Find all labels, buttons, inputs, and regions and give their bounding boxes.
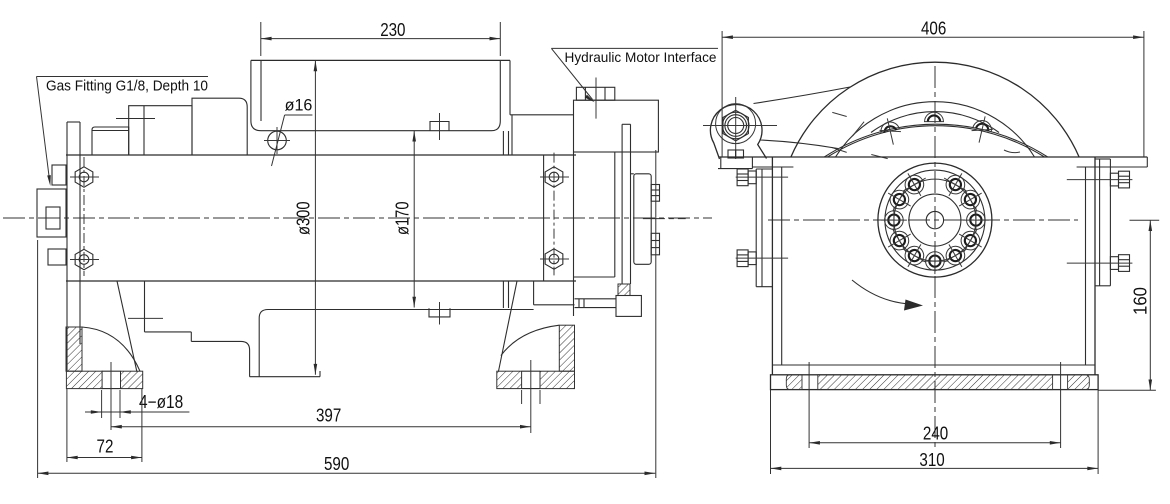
arc bolt top [924, 112, 944, 121]
hub bolt ring circle [894, 179, 976, 261]
left side bolt upper [736, 169, 788, 186]
drum barrel top line [261, 130, 492, 132]
vertical pipe [622, 124, 630, 284]
label ø16 [272, 95, 313, 166]
left bolts centerline [83, 157, 85, 276]
fairlead hex nut [703, 97, 777, 159]
dimension ø300 [294, 60, 318, 374]
svg-text:590: 590 [324, 454, 349, 474]
svg-text:406: 406 [921, 19, 946, 39]
base hatch left blob [786, 375, 802, 390]
right view vertical centerline [934, 66, 936, 447]
svg-text:4−ø18: 4−ø18 [139, 392, 183, 412]
right foot vertical hatch strip [559, 325, 574, 371]
lower pipe elbow assembly [534, 281, 642, 316]
svg-text:ø300: ø300 [294, 202, 314, 236]
right foot hole lines [522, 360, 540, 433]
dimension 310 [771, 390, 1099, 474]
frame top plate [719, 157, 1147, 167]
right flange bolt lower [545, 249, 563, 269]
small cross left bracket [128, 317, 163, 319]
svg-text:160: 160 [1131, 287, 1151, 315]
dimension 4-ø18 [85, 392, 189, 414]
svg-text:72: 72 [97, 437, 114, 457]
stepped block 1 on drum [92, 127, 129, 155]
left flange plates [67, 122, 80, 371]
dimension 397 [111, 406, 531, 429]
right side bolt lower [1067, 255, 1133, 272]
dimension 72 [67, 389, 142, 462]
hub bolts x11 [881, 167, 989, 274]
drum body band outline [66, 155, 576, 281]
arc bolt left [877, 116, 903, 147]
left foot vertical hatch strip [66, 327, 82, 371]
main horizontal centerline [3, 217, 712, 219]
frame left wall [772, 157, 781, 375]
dimension 240 [809, 362, 1061, 448]
right view horizontal centerline [768, 219, 1078, 221]
rope clamp bottom [429, 302, 450, 325]
label gas fitting [37, 77, 209, 187]
dimension 160 [1098, 220, 1159, 390]
flange texture marks [831, 112, 1020, 158]
fairlead lower nuts [728, 150, 744, 158]
dimension 230 [261, 20, 501, 56]
svg-text:Hydraulic Motor Interface: Hydraulic Motor Interface [565, 49, 717, 65]
gas fitting body block [37, 189, 66, 237]
valve block [631, 174, 686, 264]
right doubler plate [1095, 159, 1110, 286]
left foot base plate [66, 371, 142, 388]
svg-text:ø170: ø170 [393, 202, 413, 236]
valve bolt lower [651, 233, 659, 255]
right foot base plate [497, 371, 575, 388]
svg-text:Gas Fitting G1/8, Depth 10: Gas Fitting G1/8, Depth 10 [46, 78, 208, 95]
dimension 406 [722, 19, 1144, 158]
left foot hole lines [102, 362, 120, 430]
hub bore [926, 211, 943, 228]
stepped block 3 on drum [192, 98, 247, 155]
rotation arrow [852, 280, 923, 311]
left side bolt lower [736, 250, 788, 267]
frame bottom inner [772, 364, 1095, 366]
center support bracket [145, 281, 321, 377]
right side bolt upper [1067, 171, 1133, 188]
motor body [574, 152, 615, 316]
left doubler plate [756, 169, 772, 287]
hub middle circle [909, 194, 961, 246]
dimension 590 [38, 150, 656, 478]
base hatch right blob [1068, 375, 1090, 390]
right foot curve [501, 325, 559, 355]
left foot slant flange [117, 281, 137, 372]
left flange bolt upper [75, 167, 93, 187]
ø16 hole [264, 127, 290, 154]
hub outer circle [878, 163, 992, 277]
flange double arc [824, 124, 1047, 157]
right foot slant flange [499, 281, 518, 371]
svg-text:397: 397 [316, 406, 341, 426]
drum barrel bottom line [259, 310, 533, 319]
gas fitting upper block [52, 165, 66, 185]
gas fitting lower block [48, 249, 66, 265]
fairlead lobe [710, 87, 850, 159]
svg-text:310: 310 [919, 450, 944, 470]
left flange bolt lower [75, 249, 93, 269]
rope clamp top [430, 113, 449, 140]
right housing top [503, 115, 573, 308]
drum second arc [836, 102, 1035, 157]
dimension ø170 [393, 131, 417, 308]
drum outer arc [791, 62, 1079, 157]
svg-text:240: 240 [923, 424, 948, 444]
svg-text:230: 230 [380, 20, 405, 40]
drum rim top [251, 60, 510, 130]
base hatch main [818, 375, 1053, 390]
right flange bolt upper [545, 167, 563, 187]
drum third arc [871, 112, 999, 133]
left foot curve [82, 327, 140, 371]
valve bolt upper [651, 185, 659, 202]
hub second circle [885, 170, 985, 270]
frame right wall [1086, 157, 1096, 375]
stepped block 2 on drum [116, 106, 192, 155]
label hydraulic motor interface [551, 48, 718, 102]
arc bolt right [969, 114, 995, 145]
svg-text:ø16: ø16 [285, 95, 313, 114]
fairlead bracket [718, 157, 752, 169]
base plate outline [771, 375, 1099, 390]
motor mount block [574, 78, 659, 153]
